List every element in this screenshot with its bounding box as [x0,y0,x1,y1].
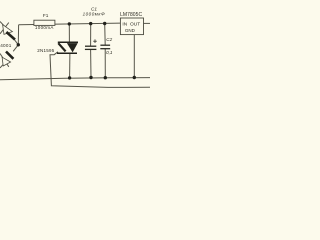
wire bottom rail B gate return [50,52,150,88]
diode D upper (1N4001) triangle [3,25,13,35]
wire C2 bottom drop [104,49,106,78]
wire C1 top drop [90,24,92,47]
wire C1 bottom drop [90,49,92,77]
svg-text:1000мкФ: 1000мкФ [83,11,106,16]
wire regulator GND drop [133,35,135,78]
node C1 bottom [89,76,92,79]
svg-text:1000mA: 1000mA [35,25,54,30]
wire bridge upper diode lead [15,40,18,45]
capacitor C2 top plate [100,44,110,46]
capacitor C1 top plate [85,45,96,47]
node regulator GND bottom [133,76,136,79]
svg-text:IN: IN [122,21,127,27]
wire regulator OUT [144,22,151,24]
svg-text:OUT: OUT [130,21,140,27]
svg-text:LM7805C: LM7805C [120,12,142,18]
wire bridge output vertical [17,25,19,45]
svg-text:C2: C2 [106,37,112,42]
capacitor C2 bottom plate [100,48,110,50]
wire SCR cathode drop [69,53,71,78]
wire bridge lower crossing [0,54,9,67]
svg-text:GND: GND [125,28,136,33]
svg-text:F1: F1 [43,13,49,18]
svg-text:4001: 4001 [0,43,12,48]
node SCR cathode bottom [68,76,71,79]
diode D upper cathode bar [6,32,15,40]
capacitor C1 bottom plate [85,48,97,50]
wire bridge lower diode lead [13,45,18,52]
fuse F1 body [34,20,55,25]
SCR 2N1595 gate diagonal [58,43,65,51]
node bridge output junction [17,43,20,46]
svg-text:2N1595: 2N1595 [37,48,55,53]
wire bridge upper crossing [0,23,9,34]
svg-text:0,1: 0,1 [106,50,113,55]
wire bridge lower axis stub [0,65,3,68]
background [0,0,150,100]
diode D lower cathode bar [6,52,13,59]
node C2 top [103,22,106,25]
wire top rail [19,23,121,25]
capacitor C1 plus sign [93,39,97,43]
wire bridge upper axis stub [0,22,5,27]
wire SCR anode drop [68,24,70,42]
wire bottom rail A [0,78,150,80]
node C2 bottom [104,76,107,79]
node C1 top [89,22,92,25]
SCR 2N1595 top bar [58,41,78,43]
diode D lower (1N4001) triangle [2,57,11,66]
regulator U1 LM7805C box [120,18,143,35]
wire C2 top drop [104,24,107,46]
node SCR anode top [68,22,71,25]
SCR 2N1595 triangle [67,43,78,52]
SCR 2N1595 bottom bar [57,52,77,54]
